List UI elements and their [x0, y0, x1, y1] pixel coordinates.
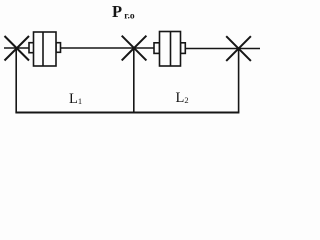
svg-text:L2: L2: [176, 90, 189, 106]
dimension vertical left: [15, 48, 17, 113]
coupling M2: [154, 32, 185, 67]
support bearing X2: [122, 36, 147, 61]
wire shaft segment right: [185, 48, 260, 50]
coupling M1: [29, 32, 61, 66]
wire shaft segment left: [4, 47, 30, 49]
support bearing X3: [226, 36, 251, 61]
dimension vertical right: [238, 49, 240, 113]
support bearing X1: [5, 36, 30, 61]
svg-text:L1: L1: [69, 91, 82, 107]
svg-text:Pг.о: Pг.о: [112, 2, 135, 22]
dimension baseline: [15, 112, 239, 114]
dimension vertical middle: [133, 48, 135, 113]
wire shaft segment middle: [60, 47, 156, 49]
